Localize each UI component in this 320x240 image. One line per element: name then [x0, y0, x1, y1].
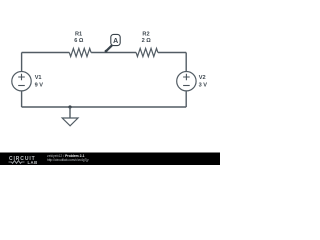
wire top-right segment	[158, 52, 186, 54]
node A pointer	[106, 45, 112, 51]
V2 plus	[183, 74, 190, 81]
wire right vertical top	[185, 53, 187, 72]
wire left vertical top	[21, 53, 23, 72]
svg-text:3 V: 3 V	[199, 83, 208, 89]
svg-text:LAB: LAB	[28, 160, 38, 165]
svg-text:R2: R2	[142, 32, 149, 38]
svg-text:V1: V1	[35, 75, 42, 81]
footer bar	[0, 153, 220, 166]
ground junction dot	[68, 105, 71, 108]
node A junction dot	[105, 50, 108, 53]
voltage source V2	[177, 72, 196, 91]
wire bottom	[22, 106, 187, 108]
wire right vertical bottom	[185, 91, 187, 107]
logo resistor zigzag	[9, 161, 25, 164]
V2 minus	[183, 85, 190, 87]
svg-text:6 Ω: 6 Ω	[74, 38, 84, 44]
ground	[62, 118, 78, 126]
wire left vertical bottom	[21, 91, 23, 107]
svg-text:V2: V2	[199, 75, 206, 81]
voltage source V1	[12, 72, 31, 91]
resistor R2	[136, 48, 158, 56]
svg-text:http://circuitlab.com/c/cv4g7j: http://circuitlab.com/c/cv4g7jy	[47, 158, 89, 162]
node A flag	[111, 34, 120, 45]
V1 plus	[18, 74, 25, 81]
svg-text:R1: R1	[75, 32, 82, 38]
resistor R1	[69, 48, 91, 56]
svg-text:9 V: 9 V	[35, 83, 44, 89]
svg-text:2 Ω: 2 Ω	[142, 38, 152, 44]
wire top-left segment	[22, 52, 70, 54]
wire mid top segment	[91, 52, 136, 54]
V1 minus	[18, 85, 25, 87]
svg-text:A: A	[113, 38, 118, 45]
ground stub	[69, 107, 71, 118]
